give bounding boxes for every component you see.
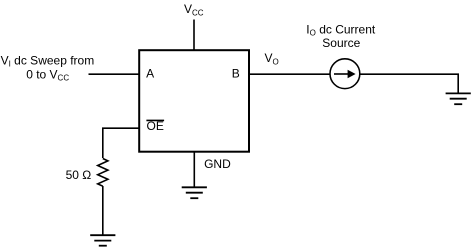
ground right [446, 93, 471, 104]
wire OE to resistor [103, 128, 139, 158]
wire input A lead [89, 73, 140, 75]
svg-text:50 Ω: 50 Ω [66, 168, 92, 182]
wire output B lead [250, 73, 331, 75]
svg-text:B: B [232, 67, 240, 81]
wire GND lead [193, 152, 195, 187]
svg-text:GND: GND [204, 157, 231, 171]
current source I1 circle [330, 59, 360, 89]
DUT box U1 [139, 50, 249, 152]
resistor R1 zigzag [98, 159, 108, 187]
wire resistor to ground [102, 186, 104, 235]
svg-text:OE: OE [147, 119, 164, 133]
OE overline [146, 119, 164, 121]
ground bottom-left [90, 235, 115, 246]
wire VCC lead [193, 20, 195, 51]
current source arrow [334, 73, 348, 75]
ground below box [182, 187, 207, 198]
svg-text:Source: Source [322, 36, 360, 50]
wire from source to right corner [360, 74, 458, 93]
svg-text:A: A [146, 67, 154, 81]
svg-text:VI dc Sweep from: VI dc Sweep from [1, 53, 95, 68]
